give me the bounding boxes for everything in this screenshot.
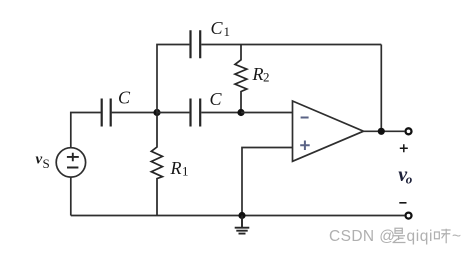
watermark glyph shi xyxy=(392,228,405,242)
capacitor C xyxy=(102,99,111,127)
wire op-amp noninverting input to ground rail xyxy=(242,148,293,216)
node ground junction xyxy=(238,212,245,219)
wire bottom rail xyxy=(71,215,405,217)
wire C2 to node B xyxy=(201,112,241,114)
svg-text:C: C xyxy=(118,88,131,108)
wire top C1 to output riser xyxy=(201,44,381,46)
svg-text:C: C xyxy=(210,89,223,109)
wire op-amp output xyxy=(364,130,405,132)
svg-text:1: 1 xyxy=(224,24,231,39)
svg-text:R: R xyxy=(170,158,182,178)
node B xyxy=(237,109,244,116)
svg-text:o: o xyxy=(406,172,413,187)
op-amp U1 xyxy=(293,101,364,161)
wire vS bottom lead xyxy=(70,177,72,216)
resistor R2 xyxy=(235,45,247,113)
wire node A to capacitor C2 xyxy=(157,112,189,114)
svg-text:~: ~ xyxy=(452,228,461,245)
wire feedback riser xyxy=(380,45,382,132)
op-amp plus symbol xyxy=(300,141,310,151)
wire riser node A to top wire xyxy=(157,45,189,113)
ground xyxy=(235,216,250,234)
capacitor C1 xyxy=(191,30,201,58)
svg-text:S: S xyxy=(43,156,50,171)
label minus output xyxy=(399,202,406,204)
capacitor C2 xyxy=(191,99,201,127)
svg-text:qiqi: qiqi xyxy=(407,228,434,245)
label plus output xyxy=(400,144,408,152)
watermark glyph ya xyxy=(435,229,451,244)
node output junction xyxy=(378,128,385,135)
wire C to node A xyxy=(112,112,157,114)
terminal output bottom xyxy=(406,213,412,219)
svg-text:CSDN @: CSDN @ xyxy=(329,228,395,245)
terminal output top xyxy=(406,128,412,134)
resistor R1 xyxy=(151,113,162,216)
wire vS top lead to capacitor C xyxy=(71,113,101,148)
wire node B to op-amp inverting input xyxy=(241,112,293,114)
svg-text:1: 1 xyxy=(182,164,189,179)
svg-text:C: C xyxy=(211,18,224,38)
node A xyxy=(153,109,160,116)
op-amp minus symbol xyxy=(301,117,309,119)
svg-text:R: R xyxy=(252,64,264,84)
voltage source vS xyxy=(56,148,85,177)
svg-text:2: 2 xyxy=(263,70,270,85)
svg-text:v: v xyxy=(36,152,43,168)
